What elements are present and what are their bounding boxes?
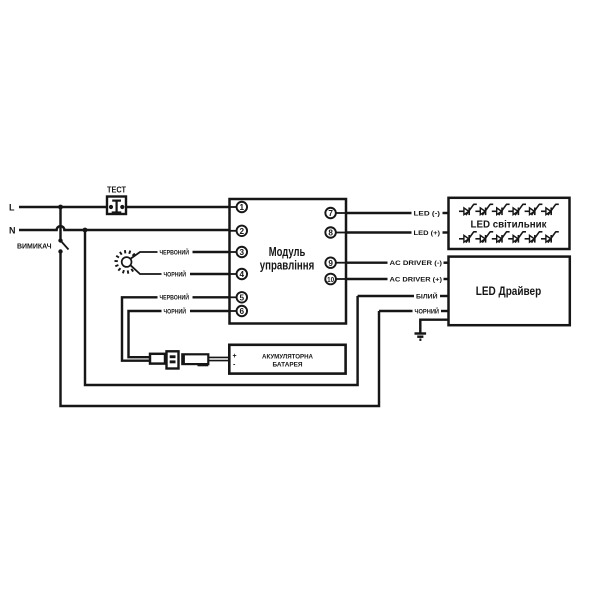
pin 8 (325, 227, 345, 238)
pin 5 (230, 292, 247, 303)
wire battery red: label to pin 5 (193, 296, 238, 298)
wire lamp red lead to pin 3 (193, 251, 238, 253)
svg-text:+: + (233, 353, 237, 360)
svg-text:1: 1 (240, 203, 245, 212)
svg-text:2: 2 (240, 227, 245, 236)
svg-text:ЧОРНИЙ: ЧОРНИЙ (415, 307, 440, 316)
pin 2 (230, 226, 247, 237)
pin 6 (230, 306, 247, 317)
svg-text:ЧЕРВОНИЙ: ЧЕРВОНИЙ (160, 248, 190, 256)
svg-text:ТЕСТ: ТЕСТ (107, 186, 126, 195)
wire L from terminal to test button (19, 206, 107, 208)
wire L from test button to module pin 1 (127, 206, 238, 208)
wire white loop: N junction down, across, up to driver білий (85, 230, 358, 385)
LED luminaire box (449, 198, 570, 249)
svg-text:LED світильник: LED світильник (471, 219, 548, 230)
svg-text:6: 6 (240, 307, 245, 316)
svg-text:9: 9 (328, 259, 333, 268)
pin 1 (230, 202, 247, 213)
LED driver box (449, 257, 570, 326)
svg-text:3: 3 (240, 248, 245, 257)
control module U1 box (230, 199, 347, 324)
wire pin 9 to AC DRIVER(-) (346, 261, 388, 263)
wire white to label (358, 295, 414, 297)
svg-text:БАТАРЕЯ: БАТАРЕЯ (273, 362, 303, 369)
pin 7 (325, 208, 345, 219)
ground symbol (415, 334, 427, 340)
switch S2 (вимикач) (58, 207, 68, 254)
wire N with jump over switch wire (19, 226, 237, 230)
battery connector plug pair (150, 351, 229, 368)
wire battery black: pin 6 to connector (129, 311, 162, 357)
svg-text:7: 7 (328, 209, 333, 218)
svg-text:8: 8 (328, 229, 333, 238)
test push-button S1 (107, 197, 126, 215)
junction dot on N at white-wire branch (83, 228, 88, 233)
svg-text:ЧОРНИЙ: ЧОРНИЙ (164, 270, 187, 278)
svg-text:L: L (9, 203, 15, 213)
wire stub AC DRIVER(-) to driver (444, 261, 450, 263)
wire stub чорний to driver (441, 310, 449, 312)
wire pin 7 to LED(-) (346, 212, 412, 214)
svg-text:ЧОРНИЙ: ЧОРНИЙ (164, 307, 187, 315)
wire stub білий to driver (440, 295, 449, 297)
svg-text:ЧЕРВОНИЙ: ЧЕРВОНИЙ (160, 294, 190, 302)
svg-text:10: 10 (327, 275, 334, 284)
pin 3 (230, 247, 247, 258)
LED string row 2 (D7-D12) (459, 232, 477, 243)
svg-text:N: N (9, 226, 16, 236)
wire black to label (379, 310, 413, 312)
svg-text:5: 5 (240, 293, 245, 302)
LED string row 1 (D1-D6) (459, 204, 477, 215)
pin 9 (325, 257, 345, 268)
wire lamp black lead (130, 265, 161, 274)
wire pin 8 to LED(+) (346, 231, 412, 233)
svg-text:4: 4 (240, 270, 245, 279)
wire stub AC DRIVER(+) to driver (444, 278, 450, 280)
wire black mains loop: switch down, across bottom, up to driver чорний (61, 252, 380, 407)
wire stub LED(+) to luminaire (443, 231, 450, 233)
wire pin 10 to AC DRIVER(+) (346, 278, 388, 280)
svg-text:ВИМИКАЧ: ВИМИКАЧ (17, 242, 52, 251)
wire lamp black lead to pin 4 (190, 273, 237, 275)
pin 10 (325, 274, 345, 285)
pin 4 (230, 269, 247, 280)
svg-text:LED (+): LED (+) (414, 230, 441, 237)
wire battery black: label to pin 6 (190, 310, 237, 312)
svg-text:БІЛИЙ: БІЛИЙ (416, 292, 438, 301)
wire lamp red lead (130, 252, 157, 259)
svg-text:AC DRIVER (-): AC DRIVER (-) (390, 260, 443, 267)
wire battery red: pin 5 to connector (122, 297, 158, 360)
junction dot on L at switch branch (58, 205, 63, 210)
svg-text:AC DRIVER (+): AC DRIVER (+) (390, 277, 443, 284)
wire ground branch from driver (420, 320, 449, 333)
svg-text:LED Драйвер: LED Драйвер (476, 286, 542, 298)
battery block (229, 345, 345, 374)
svg-text:АКУМУЛЯТОРНА: АКУМУЛЯТОРНА (262, 353, 313, 360)
svg-text:управління: управління (260, 257, 315, 272)
svg-text:LED (-): LED (-) (414, 211, 441, 218)
wire stub LED(-) to luminaire (443, 212, 450, 214)
indicator lamp HL (115, 250, 135, 274)
